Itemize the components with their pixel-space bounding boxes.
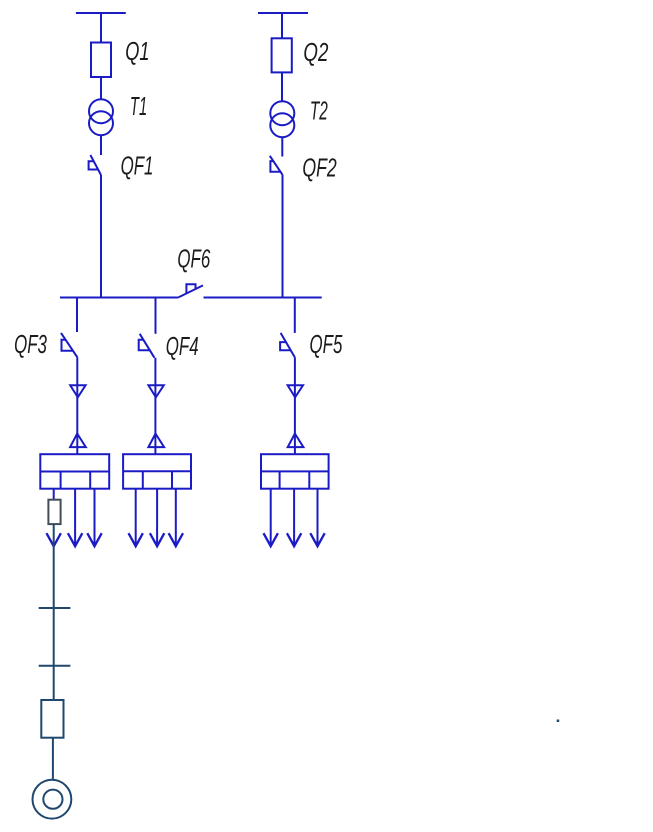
- circuit breaker QF1: [89, 155, 101, 175]
- device box: [41, 700, 63, 738]
- svg-text:QF2: QF2: [302, 153, 337, 182]
- wire: [100, 135, 102, 155]
- svg-text:QF5: QF5: [310, 329, 343, 359]
- wire: [294, 357, 296, 454]
- disconnector Q1: [91, 43, 111, 78]
- wire: [100, 77, 102, 99]
- busbar left segment: [60, 297, 178, 299]
- machine outer circle: [33, 780, 72, 819]
- bus tie breaker QF6: [178, 284, 203, 297]
- feeder wire with fuse lead: [53, 489, 55, 500]
- circuit breaker QF3: [61, 333, 78, 358]
- feeder arrow: [129, 489, 143, 547]
- feeder arrow on fused branch: [47, 533, 61, 546]
- svg-text:QF1: QF1: [121, 151, 154, 181]
- svg-text:T1: T1: [130, 93, 147, 121]
- wire: [100, 175, 102, 298]
- busbar right segment: [204, 297, 322, 299]
- transformer T1: [89, 99, 113, 135]
- wire: [281, 13, 283, 38]
- machine inner circle: [43, 790, 62, 809]
- cable run wire: [53, 524, 55, 700]
- switchgear block 2: [123, 454, 191, 489]
- wire: [52, 738, 54, 781]
- wire: [155, 298, 157, 334]
- feeder arrow: [169, 489, 183, 547]
- source bar right: [258, 12, 308, 14]
- wire: [154, 358, 156, 455]
- arrester up triangle: [148, 434, 164, 448]
- svg-text:Q1: Q1: [125, 37, 149, 66]
- circuit breaker QF4: [139, 334, 155, 358]
- transformer T2: [270, 101, 294, 137]
- arrester down triangle: [148, 385, 163, 397]
- arrester up triangle: [70, 434, 86, 448]
- node dot: [557, 720, 560, 723]
- disconnect tick 1: [39, 607, 71, 609]
- svg-text:T2: T2: [310, 96, 328, 125]
- wire: [294, 298, 296, 333]
- disconnect tick 2: [39, 665, 71, 667]
- arrester up triangle: [288, 434, 304, 448]
- circuit breaker QF5: [280, 333, 295, 357]
- wire: [281, 72, 283, 101]
- feeder arrow: [264, 489, 278, 547]
- wire: [100, 13, 102, 43]
- switchgear block 1: [40, 454, 109, 489]
- switchgear block 3: [261, 454, 329, 489]
- svg-text:QF6: QF6: [177, 244, 210, 274]
- arrester down triangle: [70, 385, 85, 397]
- circuit breaker QF2: [270, 156, 283, 175]
- wire: [76, 298, 78, 333]
- feeder arrow: [87, 489, 101, 547]
- source bar left: [76, 12, 126, 14]
- fuse FU1: [48, 500, 60, 524]
- arrester down triangle: [288, 385, 303, 397]
- svg-text:QF3: QF3: [14, 329, 47, 359]
- feeder arrow: [310, 489, 324, 547]
- wire: [282, 175, 284, 299]
- wire: [281, 137, 283, 156]
- feeder arrow: [150, 489, 164, 547]
- feeder arrow: [287, 489, 301, 547]
- svg-text:Q2: Q2: [303, 37, 328, 67]
- feeder arrow: [68, 489, 82, 547]
- svg-text:QF4: QF4: [166, 331, 199, 361]
- disconnector Q2: [272, 38, 292, 72]
- wire: [76, 358, 78, 455]
